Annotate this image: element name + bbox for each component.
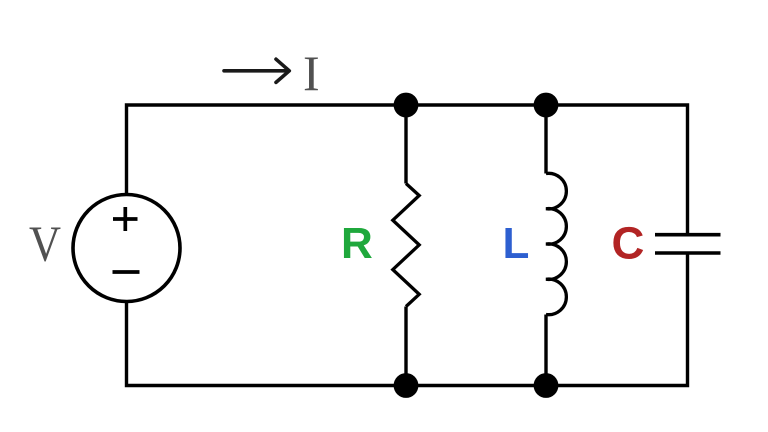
svg-text:R: R bbox=[341, 219, 373, 268]
svg-text:I: I bbox=[303, 45, 320, 101]
svg-text:L: L bbox=[503, 219, 530, 268]
svg-text:V: V bbox=[29, 217, 61, 273]
svg-text:C: C bbox=[612, 218, 645, 269]
